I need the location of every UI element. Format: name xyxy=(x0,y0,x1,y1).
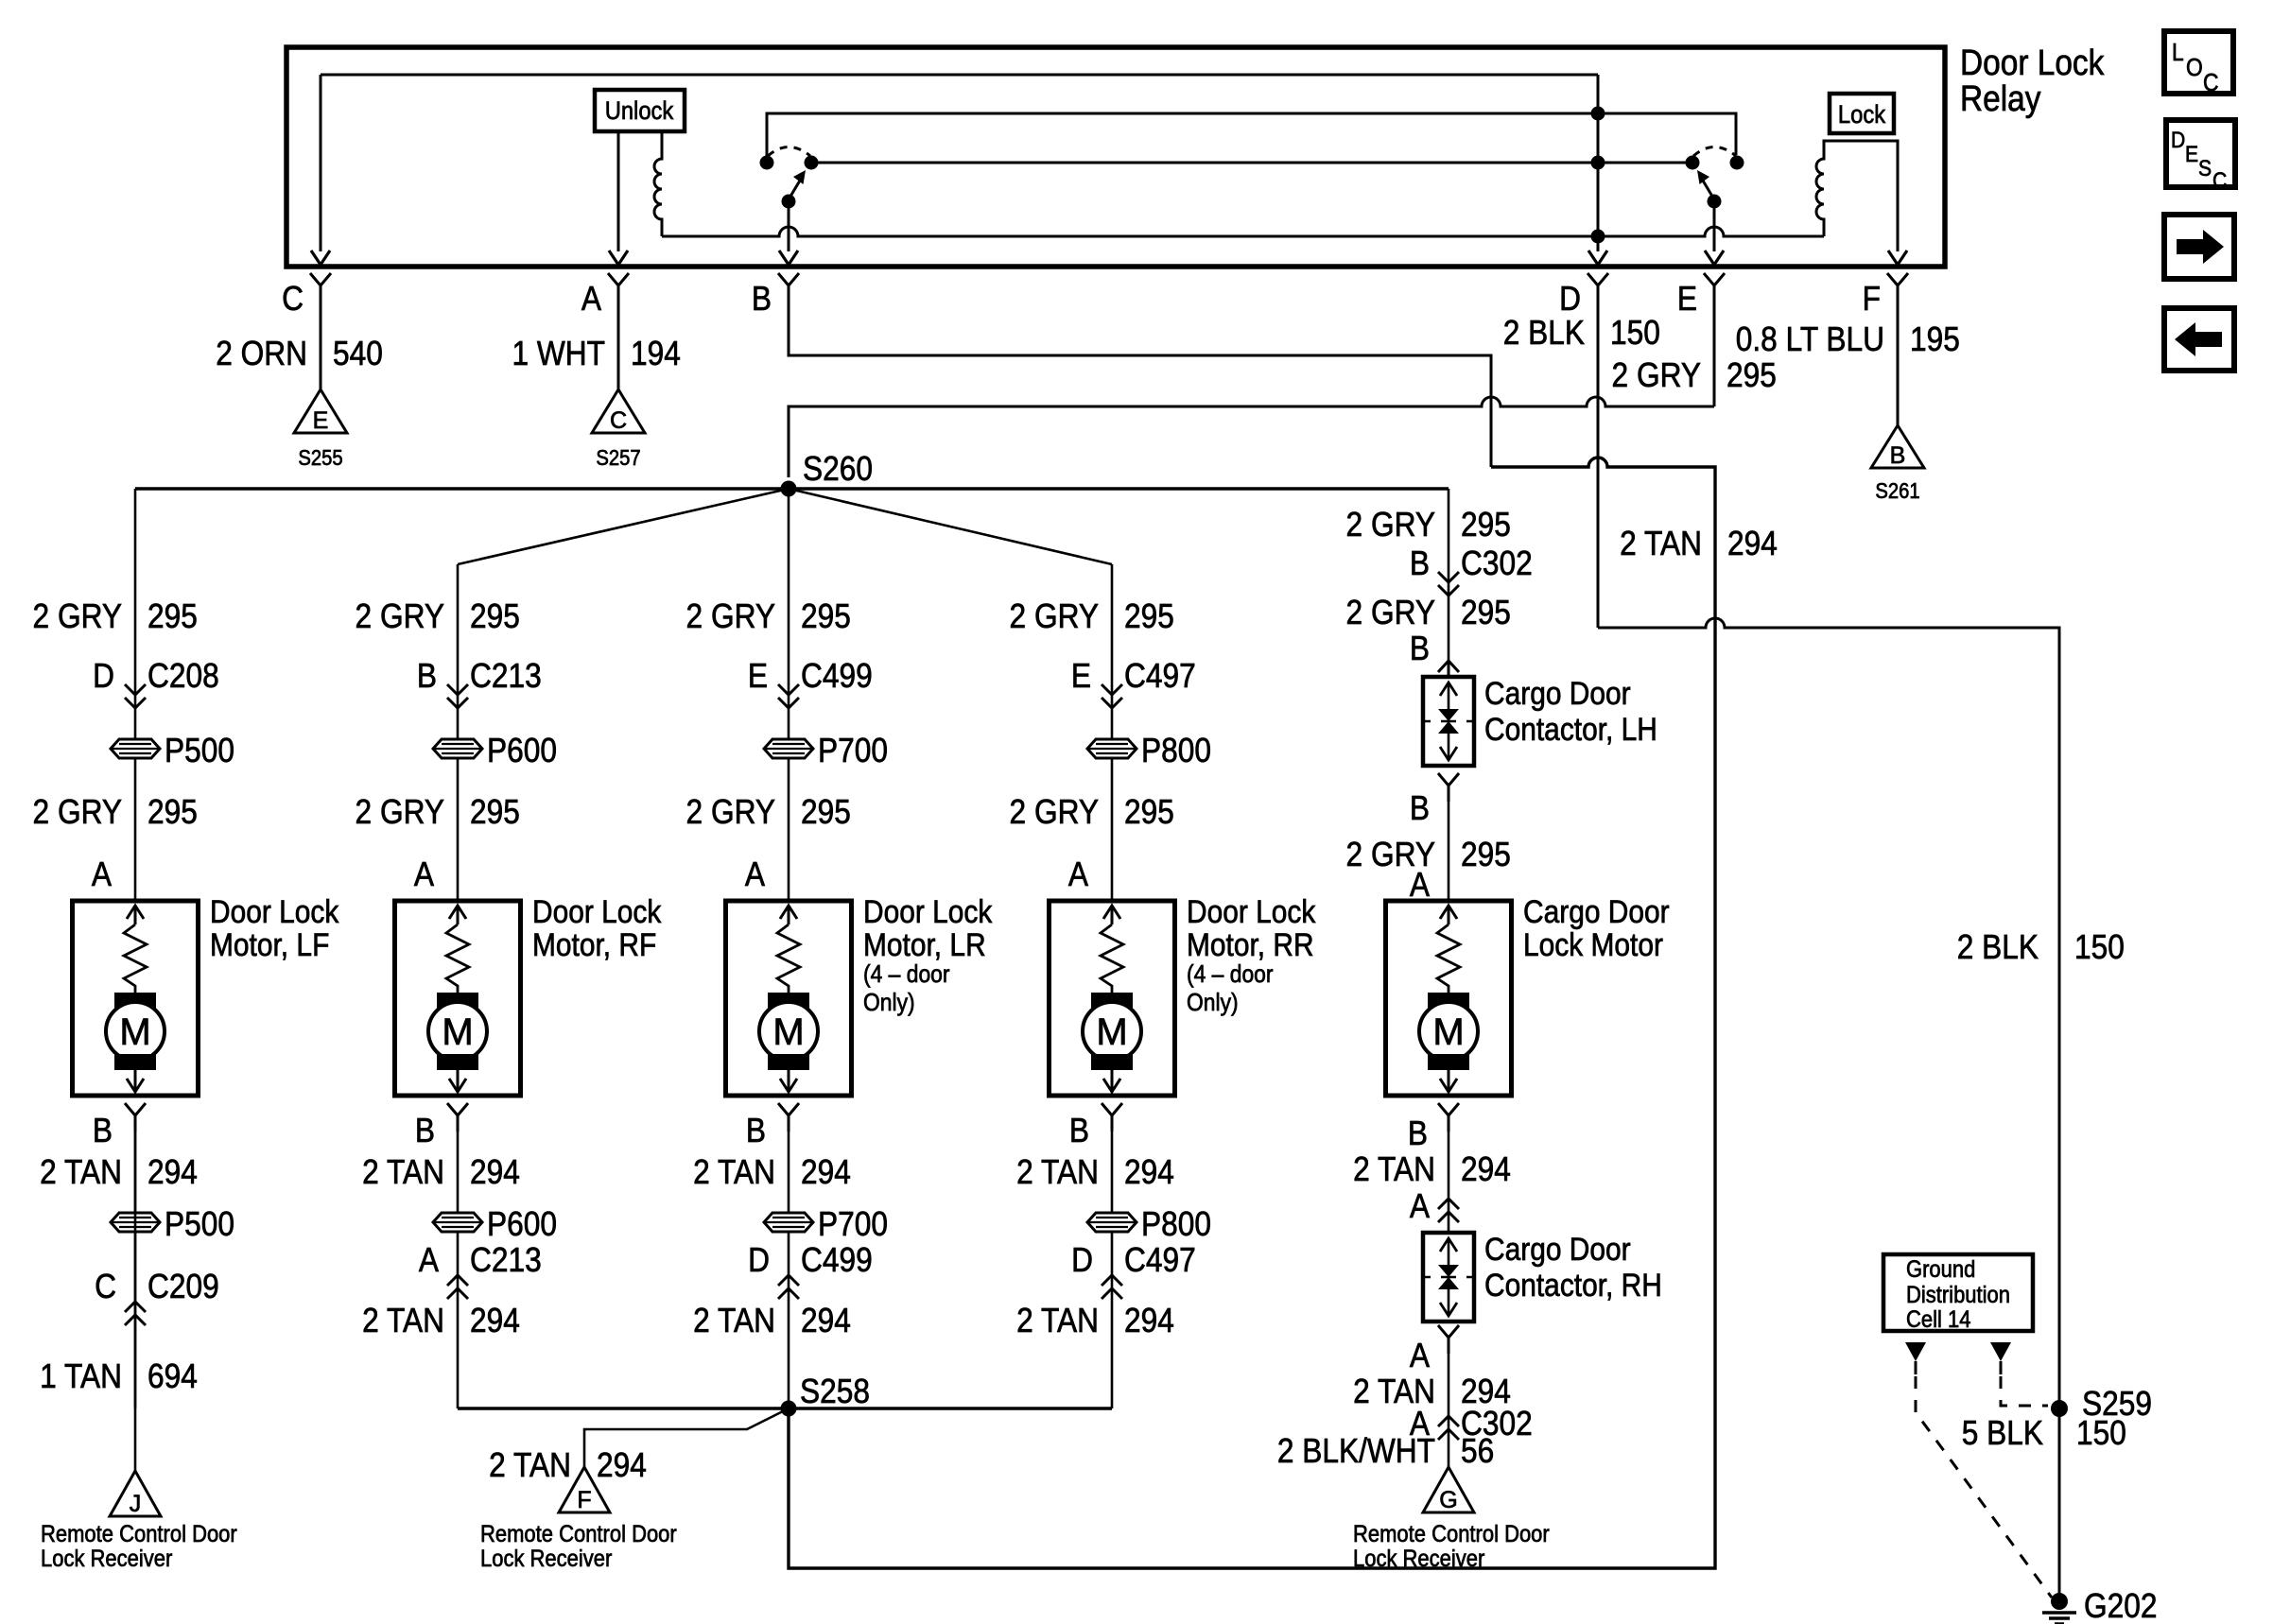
svg-text:C499: C499 xyxy=(801,1241,873,1279)
svg-text:B: B xyxy=(752,280,772,318)
svg-text:C: C xyxy=(2203,70,2219,97)
label: Remote Control Door Lock Receiver (F) xyxy=(480,1521,677,1572)
svg-text:S261: S261 xyxy=(1875,478,1919,504)
svg-text:Cargo Door: Cargo Door xyxy=(1523,893,1670,929)
svg-text:Only): Only) xyxy=(863,990,915,1017)
connector C213 xyxy=(419,1241,542,1299)
wire: S258 to triangle F receiver (2 TAN 294) xyxy=(584,1408,789,1467)
wire: pin E (2 GRY 295) left to S260 xyxy=(1713,302,1716,406)
svg-text:2 TAN: 2 TAN xyxy=(1620,525,1702,562)
svg-text:P700: P700 xyxy=(818,1205,888,1243)
svg-text:540: 540 xyxy=(333,335,383,372)
svg-text:Motor, RF: Motor, RF xyxy=(532,926,656,962)
svg-text:2 GRY: 2 GRY xyxy=(1346,594,1435,631)
svg-text:2 GRY: 2 GRY xyxy=(686,597,775,635)
pin D of relay xyxy=(1559,273,1608,318)
svg-text:B: B xyxy=(415,1112,435,1149)
svg-text:5 BLK: 5 BLK xyxy=(1962,1414,2044,1452)
connector C499 xyxy=(748,1241,873,1299)
node: splice S260 xyxy=(135,487,1449,491)
svg-text:295: 295 xyxy=(801,793,851,831)
svg-text:295: 295 xyxy=(147,793,198,831)
wire: column Motor, LR lower (2 TAN 294) xyxy=(778,1103,799,1132)
svg-text:195: 195 xyxy=(1910,320,1960,358)
connector P800 (lower) xyxy=(1087,1213,1136,1232)
svg-text:Contactor, LH: Contactor, LH xyxy=(1484,711,1657,747)
svg-text:C: C xyxy=(282,280,304,318)
svg-text:S260: S260 xyxy=(803,450,873,488)
svg-text:295: 295 xyxy=(1461,836,1511,873)
svg-text:C497: C497 xyxy=(1124,657,1196,695)
connector P600 (upper) xyxy=(433,739,482,758)
svg-text:2 GRY: 2 GRY xyxy=(1010,597,1099,635)
svg-text:Door Lock: Door Lock xyxy=(532,893,662,929)
svg-text:S257: S257 xyxy=(596,445,640,471)
svg-text:Ground: Ground xyxy=(1906,1256,1975,1283)
svg-text:P600: P600 xyxy=(487,1205,557,1243)
wire: dashed ground path to G202 xyxy=(1916,1376,2052,1598)
motor M: Door Lock Motor, RR xyxy=(1050,901,1175,1096)
svg-text:M: M xyxy=(1096,1011,1127,1053)
pin C of relay xyxy=(282,273,331,318)
svg-text:(4 – door: (4 – door xyxy=(1187,961,1274,989)
svg-text:Lock Receiver: Lock Receiver xyxy=(1353,1546,1484,1572)
svg-text:294: 294 xyxy=(801,1302,851,1339)
svg-text:A: A xyxy=(419,1241,439,1279)
svg-text:2 BLK: 2 BLK xyxy=(1503,314,1586,352)
svg-text:Only): Only) xyxy=(1187,990,1239,1017)
svg-text:Remote Control Door: Remote Control Door xyxy=(1353,1521,1550,1547)
svg-text:G: G xyxy=(1439,1487,1457,1513)
svg-text:2 TAN: 2 TAN xyxy=(489,1446,571,1484)
svg-text:150: 150 xyxy=(1610,314,1660,352)
svg-text:Distribution: Distribution xyxy=(1906,1282,2010,1308)
svg-text:B: B xyxy=(1069,1112,1089,1149)
coil L1: unlock relay coil xyxy=(654,131,662,236)
wire: dashed ground path to S259 xyxy=(2001,1376,2048,1406)
wire: pin D riser (x=1690) xyxy=(1597,75,1600,251)
svg-text:Motor, LR: Motor, LR xyxy=(863,926,986,962)
wire: column Motor, LR upper (2 GRY 295) xyxy=(788,489,790,901)
svg-text:2 ORN: 2 ORN xyxy=(216,335,307,372)
svg-text:Door Lock: Door Lock xyxy=(210,893,339,929)
icon: next-page arrow box xyxy=(2164,215,2234,279)
svg-text:A: A xyxy=(1410,1337,1430,1374)
svg-text:E: E xyxy=(1071,657,1091,695)
svg-text:P700: P700 xyxy=(818,732,888,769)
svg-text:694: 694 xyxy=(147,1357,198,1395)
svg-text:E: E xyxy=(748,657,768,695)
node: splice S258 xyxy=(458,1407,1112,1409)
lock coil box xyxy=(1830,94,1894,133)
label: Door Lock Relay xyxy=(1960,43,2104,118)
svg-text:C213: C213 xyxy=(470,1241,542,1279)
svg-text:S255: S255 xyxy=(298,445,342,471)
svg-text:B: B xyxy=(1410,789,1430,827)
motor M: Door Lock Motor, RF xyxy=(395,901,521,1096)
svg-text:M: M xyxy=(772,1011,804,1053)
svg-text:C213: C213 xyxy=(470,657,542,695)
svg-text:A: A xyxy=(1068,855,1088,893)
connector P800 (upper) xyxy=(1087,739,1136,758)
svg-text:P800: P800 xyxy=(1141,732,1211,769)
svg-text:Lock Receiver: Lock Receiver xyxy=(41,1546,172,1572)
label: Remote Control Door Lock Receiver (G) xyxy=(1353,1521,1550,1572)
svg-text:Contactor, RH: Contactor, RH xyxy=(1484,1267,1662,1303)
wire: column Motor, RR lower (2 TAN 294) xyxy=(1102,1103,1122,1132)
connector: triangle F (receiver) xyxy=(559,1467,610,1513)
connector C497 xyxy=(1071,1241,1196,1299)
svg-text:294: 294 xyxy=(1727,525,1778,562)
svg-text:Remote Control Door: Remote Control Door xyxy=(480,1521,677,1547)
svg-text:2 TAN: 2 TAN xyxy=(693,1153,775,1191)
svg-text:2 GRY: 2 GRY xyxy=(1612,356,1701,394)
svg-text:295: 295 xyxy=(1124,597,1174,635)
svg-text:J: J xyxy=(130,1491,142,1517)
svg-text:Remote Control Door: Remote Control Door xyxy=(41,1521,237,1547)
svg-text:G202: G202 xyxy=(2084,1587,2157,1624)
svg-text:295: 295 xyxy=(147,597,198,635)
wire: LF column to triangle J (1 TAN 694) xyxy=(134,1132,137,1471)
svg-text:E: E xyxy=(2185,142,2198,167)
svg-text:Unlock: Unlock xyxy=(605,97,674,126)
svg-text:P800: P800 xyxy=(1141,1205,1211,1243)
svg-text:295: 295 xyxy=(1124,793,1174,831)
svg-text:2 BLK: 2 BLK xyxy=(1957,928,2039,966)
svg-text:M: M xyxy=(442,1011,473,1053)
svg-text:E: E xyxy=(1677,280,1697,318)
svg-text:294: 294 xyxy=(147,1153,198,1191)
svg-text:Lock Receiver: Lock Receiver xyxy=(480,1546,612,1572)
svg-text:S258: S258 xyxy=(800,1373,870,1410)
node: splice S259 xyxy=(2051,1400,2068,1417)
svg-text:C209: C209 xyxy=(147,1268,219,1305)
connector P500 (lower) xyxy=(111,1213,160,1232)
svg-text:2 GRY: 2 GRY xyxy=(1010,793,1099,831)
svg-text:2 GRY: 2 GRY xyxy=(33,793,122,831)
wire: column Motor, RF upper (2 GRY 295) xyxy=(457,564,460,901)
relay U1: Door Lock Relay box xyxy=(286,47,1945,267)
connector: triangle E (S255) xyxy=(294,389,347,434)
label: 2 TAN 294 (B loop) xyxy=(1620,525,1778,562)
wire: upper cross rail y=120 xyxy=(767,113,1736,156)
wire: pin A to S257 (1 WHT 194) xyxy=(617,302,620,389)
label: 2 BLK 150 (right drop) xyxy=(1957,928,2125,966)
svg-text:295: 295 xyxy=(470,597,520,635)
wire: slant S260 to RR column xyxy=(789,489,1112,564)
svg-text:M: M xyxy=(119,1011,150,1053)
svg-text:2 TAN: 2 TAN xyxy=(1016,1153,1099,1191)
svg-text:B: B xyxy=(1408,1114,1428,1152)
svg-text:Door Lock: Door Lock xyxy=(1960,43,2104,82)
svg-text:Cell 14: Cell 14 xyxy=(1906,1306,1970,1333)
wire: pin E drop inside relay xyxy=(1713,201,1716,251)
svg-text:C208: C208 xyxy=(147,657,219,695)
svg-text:0.8 LT BLU: 0.8 LT BLU xyxy=(1736,320,1884,358)
label: Remote Control Door Lock Receiver (J) xyxy=(41,1521,237,1572)
wire: relay internal top rail xyxy=(321,74,1598,77)
svg-text:B: B xyxy=(746,1112,766,1149)
unlock coil box xyxy=(595,90,685,131)
wire: contact rail y=172 between switches xyxy=(811,162,1692,164)
svg-text:Cargo Door: Cargo Door xyxy=(1484,1231,1631,1267)
svg-text:1 TAN: 1 TAN xyxy=(40,1357,122,1395)
svg-text:A: A xyxy=(745,855,765,893)
svg-text:194: 194 xyxy=(631,335,681,372)
svg-text:150: 150 xyxy=(2074,928,2125,966)
svg-text:D: D xyxy=(2171,128,2185,153)
svg-text:2 GRY: 2 GRY xyxy=(1346,506,1435,544)
connector: triangle B (S261) xyxy=(1871,425,1924,469)
svg-text:2 TAN: 2 TAN xyxy=(40,1153,122,1191)
pin B of relay xyxy=(752,273,799,318)
svg-text:C302: C302 xyxy=(1461,544,1533,582)
svg-text:C: C xyxy=(2212,168,2227,194)
svg-text:56: 56 xyxy=(1461,1432,1494,1470)
svg-text:B: B xyxy=(1890,442,1906,469)
label: 1 WHT 194 xyxy=(512,335,680,372)
svg-text:295: 295 xyxy=(1726,356,1777,394)
svg-text:Door Lock: Door Lock xyxy=(1187,893,1316,929)
connector: triangle G (receiver) xyxy=(1423,1467,1474,1513)
wire: pin B (door unlock feed) loop to S258 via 2 TAN 294 xyxy=(789,302,1491,467)
svg-text:1 WHT: 1 WHT xyxy=(512,335,605,372)
svg-text:A: A xyxy=(581,280,601,318)
wire: cargo column lower xyxy=(1438,1103,1459,1132)
svg-text:2 GRY: 2 GRY xyxy=(356,597,444,635)
pin A of relay xyxy=(581,273,629,318)
wire: pin F to S261 (0.8 LT BLU 195) xyxy=(1897,302,1900,425)
wire: cargo column upper (2 GRY 295) xyxy=(1448,489,1450,677)
svg-text:2 GRY: 2 GRY xyxy=(686,793,775,831)
svg-text:C: C xyxy=(95,1268,116,1305)
svg-text:D: D xyxy=(1559,280,1581,318)
svg-text:(4 – door: (4 – door xyxy=(863,961,949,989)
wire: pin B drop inside relay xyxy=(788,201,790,251)
svg-text:294: 294 xyxy=(1124,1153,1174,1191)
svg-text:B: B xyxy=(1410,630,1430,667)
svg-text:L: L xyxy=(2172,40,2184,67)
connector C302 (lower) xyxy=(1410,1405,1533,1443)
connector C208 xyxy=(93,657,219,708)
svg-text:295: 295 xyxy=(470,793,520,831)
svg-text:294: 294 xyxy=(1461,1150,1511,1188)
wire: pin D ground feed (2 BLK 150) down, right, to far-right drop xyxy=(1597,302,1600,628)
svg-text:294: 294 xyxy=(597,1446,647,1484)
wire: column Motor, LF upper (2 GRY 295) xyxy=(134,489,137,901)
pin F of relay xyxy=(1863,273,1908,318)
svg-text:Lock Motor: Lock Motor xyxy=(1523,926,1663,962)
connector C213 xyxy=(417,657,542,708)
connector C499 xyxy=(748,657,873,708)
svg-text:294: 294 xyxy=(470,1153,520,1191)
motor M: Cargo Door Lock Motor xyxy=(1386,901,1512,1096)
svg-text:C: C xyxy=(610,407,627,434)
svg-text:A: A xyxy=(1410,1187,1430,1225)
svg-text:Relay: Relay xyxy=(1960,78,2041,118)
svg-text:E: E xyxy=(313,407,329,434)
icon: DESC box xyxy=(2166,120,2235,193)
svg-text:2 BLK/WHT: 2 BLK/WHT xyxy=(1277,1432,1435,1470)
svg-text:295: 295 xyxy=(1461,506,1511,544)
wire: column Motor, RR upper (2 GRY 295) xyxy=(1111,564,1114,901)
connector C497 xyxy=(1071,657,1196,708)
svg-text:D: D xyxy=(1071,1241,1093,1279)
svg-text:B: B xyxy=(93,1112,113,1149)
wire: pin A riser from Unlock box xyxy=(617,131,620,251)
connector: triangle C (S257) xyxy=(592,389,645,434)
svg-text:2 TAN: 2 TAN xyxy=(1353,1150,1435,1188)
connector P500 (upper) xyxy=(111,739,160,758)
svg-text:D: D xyxy=(93,657,114,695)
svg-text:294: 294 xyxy=(1124,1302,1174,1339)
svg-text:Motor, LF: Motor, LF xyxy=(210,926,329,962)
svg-text:P500: P500 xyxy=(165,732,234,769)
connector C302 (upper) xyxy=(1410,544,1533,596)
svg-text:2 TAN: 2 TAN xyxy=(362,1153,444,1191)
svg-text:A: A xyxy=(1410,866,1430,904)
svg-text:P500: P500 xyxy=(165,1205,234,1243)
svg-text:2 GRY: 2 GRY xyxy=(33,597,122,635)
icon: LOC box xyxy=(2164,31,2233,96)
contactor: Cargo Door Contactor, RH xyxy=(1423,1233,1474,1322)
connector P700 (lower) xyxy=(764,1213,813,1232)
ground G202 xyxy=(2051,1593,2068,1610)
svg-text:Door Lock: Door Lock xyxy=(863,893,993,929)
wire: slant S260 to RF column xyxy=(458,489,789,564)
svg-text:2 TAN: 2 TAN xyxy=(362,1302,444,1339)
wire: column Motor, RF lower (2 TAN 294) xyxy=(447,1103,468,1132)
svg-text:C499: C499 xyxy=(801,657,873,695)
motor M: Door Lock Motor, LR xyxy=(726,901,852,1096)
label: 2 GRY 295 (pin E) xyxy=(1612,356,1777,394)
pin E of relay xyxy=(1677,273,1725,318)
connector C209 xyxy=(95,1268,219,1325)
coil L2: lock relay coil xyxy=(1816,141,1898,251)
icon: prev-page arrow box xyxy=(2164,308,2234,371)
label: 2 ORN 540 xyxy=(216,335,383,372)
svg-text:M: M xyxy=(1432,1011,1464,1053)
contactor: Cargo Door Contactor, LH xyxy=(1423,677,1474,766)
connector arrows from ground cell xyxy=(1905,1342,2011,1374)
svg-text:2 TAN: 2 TAN xyxy=(693,1302,775,1339)
svg-text:2 GRY: 2 GRY xyxy=(356,793,444,831)
svg-text:B: B xyxy=(1410,544,1430,582)
svg-text:S: S xyxy=(2198,156,2212,181)
svg-text:A: A xyxy=(92,855,112,893)
label: 2 BLK 150 (pin D) xyxy=(1503,314,1660,352)
svg-text:150: 150 xyxy=(2076,1414,2126,1452)
svg-text:294: 294 xyxy=(470,1302,520,1339)
svg-text:Motor, RR: Motor, RR xyxy=(1187,926,1314,962)
svg-text:295: 295 xyxy=(801,597,851,635)
wire: coil ground rail y=250 with hops over B and E drops xyxy=(662,227,1824,236)
motor M: Door Lock Motor, LF xyxy=(73,901,199,1096)
switch SW2: lock contacts xyxy=(1686,147,1744,209)
connector P700 (upper) xyxy=(764,739,813,758)
svg-text:P600: P600 xyxy=(487,732,557,769)
svg-text:B: B xyxy=(417,657,437,695)
svg-text:Cargo Door: Cargo Door xyxy=(1484,675,1631,711)
connector: triangle J (receiver) xyxy=(110,1471,161,1517)
svg-text:F: F xyxy=(577,1487,591,1513)
switch SW1: unlock contacts xyxy=(760,147,819,209)
svg-text:O: O xyxy=(2186,55,2203,82)
svg-text:A: A xyxy=(414,855,434,893)
svg-text:294: 294 xyxy=(801,1153,851,1191)
wire: pin C to S255 (2 ORN 540) xyxy=(320,302,322,389)
label: 0.8 LT BLU 195 xyxy=(1736,320,1960,358)
connector P600 (lower) xyxy=(433,1213,482,1232)
wire: pin F riser xyxy=(1888,251,1907,265)
wire: pin C riser inside relay xyxy=(320,75,322,251)
label: 2 TAN 294 (receiver F) xyxy=(489,1446,647,1484)
svg-text:C497: C497 xyxy=(1124,1241,1196,1279)
node: junction dots on pin D riser xyxy=(1591,107,1605,121)
svg-text:F: F xyxy=(1863,280,1881,318)
svg-text:Lock: Lock xyxy=(1838,101,1885,130)
ground distribution cell box xyxy=(1883,1254,2033,1332)
svg-text:D: D xyxy=(748,1241,770,1279)
wire: column Motor, LF lower (2 TAN 294) xyxy=(125,1103,146,1132)
svg-text:2 TAN: 2 TAN xyxy=(1016,1302,1099,1339)
svg-text:295: 295 xyxy=(1461,594,1511,631)
